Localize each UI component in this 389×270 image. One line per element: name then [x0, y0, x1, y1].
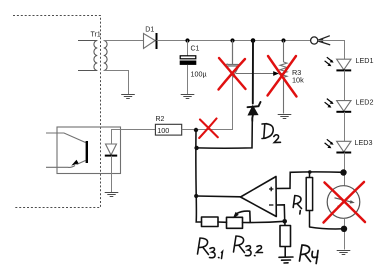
ground (opto)	[105, 193, 119, 197]
svg-text:C1: C1	[191, 46, 200, 53]
wire: LED3 to lamp	[344, 153, 346, 186]
wire: U1 anode to R2 wire (crossed out)	[196, 77, 233, 130]
wire: R3.1 to R3.2	[218, 221, 227, 223]
capacitor C1	[180, 41, 197, 95]
LED LED1	[325, 57, 352, 70]
ground (R3)	[278, 115, 292, 119]
resistor Ri (hand-drawn)	[306, 172, 343, 229]
enclosure boundary (dashed)	[13, 16, 101, 208]
deletion mark X over lamp	[324, 182, 366, 223]
wire: LED2 to LED3	[344, 112, 346, 142]
zener diode D2 (hand-drawn)	[248, 41, 261, 121]
node: D2 anode junction	[194, 146, 198, 150]
node: op-amp output junction	[194, 194, 198, 198]
svg-text:100µ: 100µ	[191, 70, 207, 79]
LED LED3	[325, 139, 352, 152]
node: U1 cathode junction	[230, 38, 234, 42]
wire: R3.2 to -in junction	[243, 221, 285, 222]
wire: LED1 to LED2	[344, 70, 346, 100]
op-amp + input label	[269, 187, 273, 191]
diode D1	[144, 33, 157, 49]
ground (C1)	[181, 95, 195, 99]
node: tap junction on R2 wire	[194, 128, 198, 132]
wire: Tr1 secondary bottom to ground	[104, 71, 129, 95]
label R3.2 (handwritten)	[234, 236, 263, 256]
LED LED2	[325, 99, 352, 112]
deletion mark X over R2-U1 wire	[199, 119, 218, 139]
node: C1 junction	[185, 38, 189, 42]
label R3.1 (handwritten)	[198, 238, 223, 259]
node: +in / Ri top junction	[308, 170, 312, 174]
shunt regulator U1 (crossed out)	[226, 41, 240, 78]
resistor R3.1 (hand-drawn)	[202, 217, 219, 227]
opto LED	[105, 144, 117, 156]
ground (R4, hand-drawn)	[279, 257, 293, 263]
node: -in / R4 / R3.2 junction	[282, 219, 287, 224]
wire: op-amp +in riser to LED3 node (hand-drawn)	[276, 172, 343, 189]
op-amp U2 (hand-drawn, pointing left)	[241, 177, 277, 217]
ground (Tr1 secondary)	[121, 95, 135, 99]
wire: R2 to tap junction	[182, 129, 196, 131]
wire: opto LED cathode to ground	[111, 156, 113, 192]
deletion mark X over U1	[219, 58, 246, 90]
svg-text:R2: R2	[156, 116, 165, 123]
label D2 (handwritten)	[262, 124, 281, 143]
wire: Tr1 secondary top to D1 anode	[104, 40, 144, 42]
resistor R2	[155, 124, 181, 135]
wire: lamp to ground	[344, 218, 346, 249]
wire: tap line down to feedback (hand-drawn)	[196, 130, 202, 222]
node: lamp bottom junction (blob)	[341, 226, 347, 232]
node: R3 junction	[281, 38, 285, 42]
potentiometer R3.2 (hand-drawn)	[227, 211, 251, 228]
op-amp - input label	[269, 204, 273, 206]
switch S1	[311, 36, 331, 45]
wire: op-amp -in to R4 junction (hand-drawn)	[276, 205, 284, 221]
node: LED3 bottom junction (blob)	[340, 169, 346, 175]
optocoupler IC1	[46, 127, 121, 174]
lamp / meter (crossed out)	[327, 186, 360, 219]
svg-text:LED1: LED1	[356, 56, 374, 65]
wire: D1 cathode to switch (top rail)	[157, 40, 311, 42]
svg-text:Tr1: Tr1	[91, 32, 101, 39]
svg-text:D1: D1	[145, 27, 154, 34]
potentiometer R3 (crossed out)	[280, 41, 287, 114]
wire: opto LED anode to R2	[112, 130, 156, 145]
wire: op-amp output (hand-drawn)	[196, 195, 240, 198]
svg-text:100: 100	[157, 126, 169, 135]
node: D2 rail junction	[251, 38, 256, 43]
svg-text:LED3: LED3	[355, 138, 373, 147]
svg-text:LED2: LED2	[356, 97, 374, 106]
wire: D2 anode to tap line (hand-drawn)	[197, 121, 253, 148]
transformer Tr1	[78, 41, 107, 71]
resistor R4 (hand-drawn)	[280, 221, 291, 256]
ground (lamp)	[337, 251, 351, 255]
wire: switch to LED1	[318, 41, 344, 60]
deletion mark X over R3	[268, 56, 297, 97]
label R4 (handwritten)	[300, 245, 319, 264]
wire: U1 ref to R3 wiper (arrow)	[236, 71, 279, 76]
label Ri (handwritten)	[293, 196, 301, 215]
svg-text:10k: 10k	[292, 76, 304, 85]
